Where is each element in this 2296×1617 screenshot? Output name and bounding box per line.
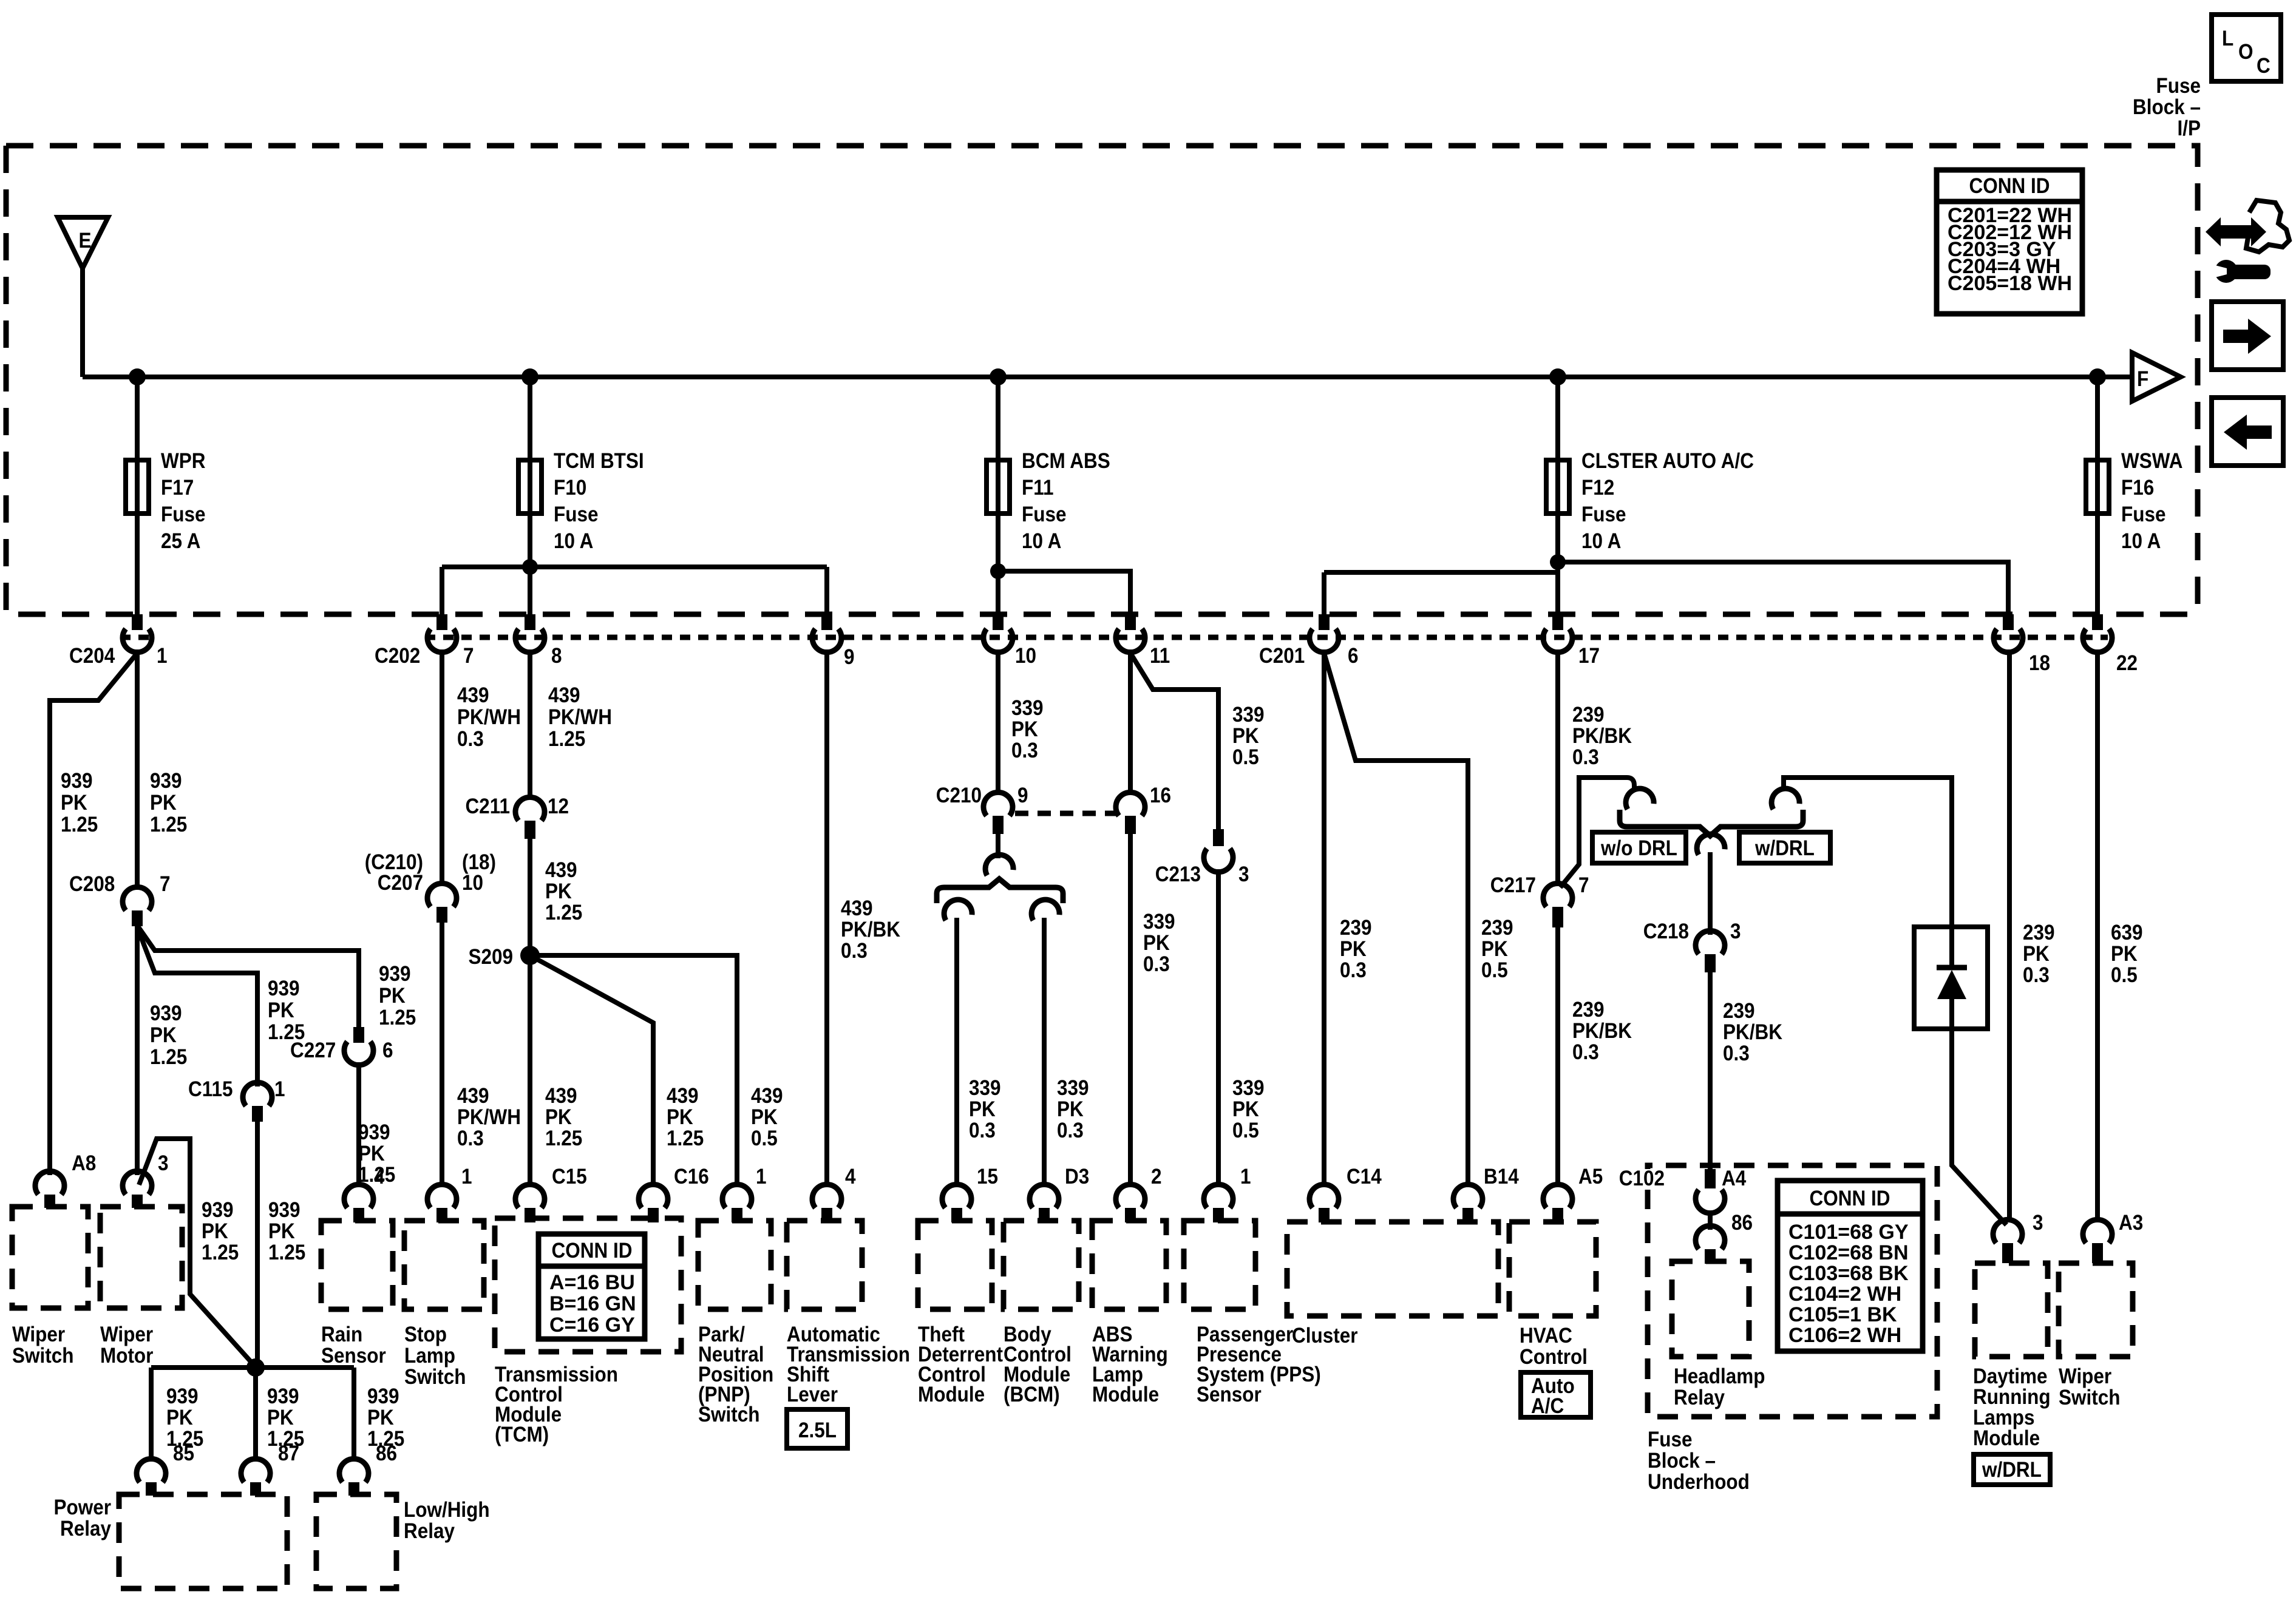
wire S209 to C16 <box>530 955 653 1187</box>
label stop lamp switch <box>404 1323 466 1389</box>
svg-text:F16: F16 <box>2121 476 2154 500</box>
TCM box <box>495 1218 681 1352</box>
connector C207 <box>365 851 496 923</box>
svg-text:(TCM): (TCM) <box>495 1423 549 1447</box>
svg-text:10: 10 <box>462 872 483 895</box>
stop lamp switch box <box>404 1221 484 1309</box>
svg-text:439: 439 <box>841 897 873 921</box>
svg-text:B=16 GN: B=16 GN <box>549 1292 636 1315</box>
wire S209 to PNP pin 1 <box>530 955 737 1187</box>
svg-text:PK: PK <box>166 1406 193 1430</box>
right arrow box <box>2212 302 2283 370</box>
svg-text:1.25: 1.25 <box>150 1046 187 1070</box>
svg-text:18: 18 <box>2029 652 2050 676</box>
svg-text:Module: Module <box>1973 1427 2040 1451</box>
wire label 239 PK/BK 0.3 (A5) <box>1572 998 1632 1065</box>
shift lever box <box>787 1221 862 1309</box>
connector C208 pin 7 <box>69 873 171 926</box>
cluster pin B14 <box>1453 1165 1519 1222</box>
connector C211 pin 12 <box>465 795 569 839</box>
svg-text:0.3: 0.3 <box>1723 1042 1750 1066</box>
svg-text:1.25: 1.25 <box>545 901 582 925</box>
svg-text:439: 439 <box>548 684 580 708</box>
wire C211 to C15 through S209 <box>528 839 532 1187</box>
svg-text:339: 339 <box>1232 703 1265 727</box>
cluster pin C14 <box>1309 1165 1382 1222</box>
connector pin 10 <box>983 614 1036 668</box>
svg-text:2: 2 <box>1151 1165 1162 1189</box>
wire C210-9 to splice <box>996 834 1000 858</box>
wire w/DRL branch to diode <box>1784 778 1952 927</box>
svg-text:A3: A3 <box>2119 1212 2143 1235</box>
svg-text:939: 939 <box>150 1002 182 1026</box>
fuse F12 CLSTER AUTO A/C 10A <box>1546 450 1754 554</box>
connector C202 pin 9 <box>812 614 855 669</box>
wire to relay pin 86 <box>352 1368 356 1462</box>
svg-text:A=16 BU: A=16 BU <box>549 1271 635 1294</box>
svg-text:0.3: 0.3 <box>1057 1119 1084 1143</box>
svg-text:A4: A4 <box>1722 1167 1747 1191</box>
connector C210 pin 9 <box>936 784 1028 834</box>
connector C218 pin 3 <box>1643 920 1741 972</box>
svg-text:10 A: 10 A <box>554 530 593 554</box>
connector C204 pin 1 <box>69 614 168 668</box>
wire C202-7 down to C207 <box>440 649 444 885</box>
connector row dotted line C204 <box>120 635 157 640</box>
wire label 639 PK 0.5 (pin22) <box>2111 921 2143 988</box>
label fuse block underhood <box>1648 1428 1750 1494</box>
power relay box <box>119 1494 287 1588</box>
svg-text:Low/High: Low/High <box>404 1499 490 1522</box>
brace splice DRL <box>1620 810 1803 836</box>
svg-text:A5: A5 <box>1578 1165 1603 1189</box>
CONN ID table top <box>1937 170 2082 314</box>
wire fuse F10 to splice row <box>528 514 532 567</box>
svg-text:939: 939 <box>379 963 411 986</box>
svg-text:Wiper: Wiper <box>100 1323 153 1347</box>
wire to BCM pin D3 <box>1042 918 1047 1187</box>
svg-text:PK/BK: PK/BK <box>1572 1020 1632 1043</box>
svg-text:1.25: 1.25 <box>202 1241 239 1265</box>
svg-text:D3: D3 <box>1065 1165 1089 1189</box>
svg-text:Fuse: Fuse <box>1648 1428 1692 1452</box>
w/DRL splice end arc <box>1769 786 1800 810</box>
connector F triangle <box>2132 353 2181 401</box>
svg-text:C=16 GY: C=16 GY <box>549 1314 635 1337</box>
svg-text:2.5L: 2.5L <box>798 1419 837 1443</box>
wire C204-1 down to C208 <box>135 649 140 890</box>
svg-text:1.25: 1.25 <box>545 1127 582 1151</box>
svg-text:F11: F11 <box>1022 476 1054 500</box>
svg-text:1.25: 1.25 <box>150 813 187 837</box>
svg-text:439: 439 <box>545 1085 577 1108</box>
PPS box <box>1184 1221 1255 1309</box>
CONN ID table (underhood) <box>1778 1181 1923 1351</box>
wire pin3 to relay junction <box>139 1139 256 1367</box>
svg-text:C103=68 BK: C103=68 BK <box>1788 1262 1909 1285</box>
TCM pin C15 <box>515 1165 587 1222</box>
label headlamp relay <box>1674 1365 1765 1410</box>
label passenger presence system sensor <box>1197 1323 1321 1407</box>
svg-text:3: 3 <box>1238 863 1249 887</box>
connector pin 11 <box>1116 614 1170 668</box>
svg-text:PK: PK <box>367 1406 394 1430</box>
daytime running lamps module box <box>1975 1263 2048 1357</box>
wire C201-6 to cluster B14 <box>1324 653 1468 1187</box>
wire label 239 PK 0.3 (pin18) <box>2023 921 2055 988</box>
svg-text:0.5: 0.5 <box>1481 959 1508 983</box>
wire diode to DRL pin 3 <box>1952 1029 2006 1225</box>
fuse F17 WPR 25A <box>126 450 205 554</box>
cluster box <box>1287 1222 1498 1316</box>
wire C217 to w/o DRL splice <box>1560 778 1634 887</box>
svg-text:239: 239 <box>1481 917 1513 940</box>
brace splice <box>937 879 1063 903</box>
main bus wire <box>83 375 2132 379</box>
svg-text:Block –: Block – <box>2133 96 2201 120</box>
svg-text:Relay: Relay <box>60 1517 111 1541</box>
svg-text:9: 9 <box>844 646 855 670</box>
svg-text:339: 339 <box>1143 910 1175 934</box>
shift lever pin 4 <box>812 1165 856 1222</box>
wire C217 to HVAC A5 <box>1555 927 1560 1187</box>
svg-text:939: 939 <box>202 1199 234 1222</box>
wire bus to fuse F11 <box>996 377 1000 460</box>
TCM pin C16 <box>639 1165 709 1222</box>
svg-text:CONN ID: CONN ID <box>552 1239 633 1263</box>
svg-text:939: 939 <box>268 977 300 1001</box>
svg-text:939: 939 <box>166 1385 199 1409</box>
svg-text:Block –: Block – <box>1648 1449 1716 1473</box>
theft module pin 15 <box>942 1165 998 1222</box>
relay junction <box>246 1358 265 1377</box>
HVAC box <box>1509 1222 1596 1316</box>
theft deterrent box <box>918 1221 992 1309</box>
splice end arc left <box>942 897 973 921</box>
svg-text:239: 239 <box>2023 921 2055 945</box>
svg-text:1.25: 1.25 <box>268 1241 305 1265</box>
svg-text:C101=68 GY: C101=68 GY <box>1788 1221 1909 1244</box>
splice arc to C218 <box>1694 832 1725 855</box>
svg-text:PK: PK <box>1481 938 1508 961</box>
svg-text:PK: PK <box>2023 943 2050 966</box>
svg-text:Cluster: Cluster <box>1292 1324 1358 1348</box>
wire label 939 PK 1.25 (A8) <box>61 770 98 837</box>
label body control module <box>1004 1323 1072 1407</box>
wire C218 to C102 <box>1708 972 1713 1173</box>
svg-text:239: 239 <box>1340 917 1372 940</box>
svg-text:0.3: 0.3 <box>969 1119 996 1143</box>
headlamp relay box <box>1672 1261 1749 1357</box>
wire pin22 down to wiper switch A3 <box>2095 649 2100 1222</box>
wire fuse F17 to connector C204 <box>135 514 140 615</box>
hand icon <box>2242 200 2289 252</box>
svg-text:25 A: 25 A <box>161 530 200 554</box>
svg-text:439: 439 <box>667 1085 699 1108</box>
wire label 939 PK 1.25 (C208) <box>150 770 187 837</box>
double arrow icon <box>2206 217 2266 246</box>
svg-text:Lamp: Lamp <box>404 1344 455 1368</box>
stop lamp switch pin 1 <box>427 1165 472 1222</box>
svg-text:PK: PK <box>358 1142 385 1166</box>
wrench icon <box>2213 260 2271 283</box>
svg-text:PK: PK <box>1011 718 1038 742</box>
wire to theft module pin 15 <box>954 918 959 1187</box>
svg-text:A8: A8 <box>72 1152 96 1176</box>
svg-text:9: 9 <box>1017 784 1028 808</box>
svg-text:WSWA: WSWA <box>2121 450 2182 473</box>
connector C202 pin 7 <box>375 614 474 668</box>
svg-text:Underhood: Underhood <box>1648 1471 1750 1494</box>
label wiper switch <box>12 1323 73 1368</box>
svg-text:CONN ID: CONN ID <box>1969 175 2050 198</box>
svg-text:Relay: Relay <box>1674 1386 1725 1410</box>
svg-text:85: 85 <box>173 1442 194 1466</box>
headlamp relay pin 86 <box>1696 1212 1753 1264</box>
PPS pin 1 <box>1204 1165 1251 1222</box>
svg-text:PK: PK <box>545 1106 572 1130</box>
svg-text:CONN ID: CONN ID <box>1810 1187 1890 1211</box>
connector pin 18 <box>1994 614 2050 675</box>
wire label 339 PK 0.5 (C213 above) <box>1232 703 1265 770</box>
svg-text:0.3: 0.3 <box>457 1127 484 1151</box>
svg-text:F: F <box>2137 368 2148 392</box>
connector C201 pin 17 <box>1543 614 1600 668</box>
svg-text:C227: C227 <box>290 1039 336 1063</box>
label Fuse Block - I/P <box>2133 75 2201 141</box>
svg-text:C105=1 BK: C105=1 BK <box>1788 1303 1897 1326</box>
svg-text:Switch: Switch <box>2059 1386 2120 1410</box>
svg-text:939: 939 <box>61 770 93 793</box>
label daytime running lamps module <box>1973 1365 2051 1451</box>
wire label 439 PK 1.25 (C15) <box>545 1085 582 1151</box>
w/o DRL splice end arc <box>1623 786 1654 810</box>
svg-text:7: 7 <box>1578 874 1589 898</box>
svg-text:15: 15 <box>977 1165 998 1189</box>
svg-text:Power: Power <box>54 1496 112 1520</box>
svg-text:C211: C211 <box>465 795 510 819</box>
wire C208 to wiper motor pin 3 <box>135 926 140 1175</box>
wire label 239 PK/BK 0.3 (pin17) <box>1572 703 1632 770</box>
svg-text:PK/BK: PK/BK <box>841 918 900 942</box>
svg-text:Fuse: Fuse <box>161 503 205 527</box>
svg-text:PK: PK <box>1232 725 1259 748</box>
svg-text:439: 439 <box>545 859 577 883</box>
svg-text:Stop: Stop <box>404 1323 447 1347</box>
ground connector E triangle <box>58 217 108 268</box>
CONN ID table (TCM) <box>538 1234 645 1339</box>
svg-text:PK: PK <box>150 792 177 815</box>
connector C227 pin 6 <box>290 1027 393 1065</box>
DRL module pin 3 <box>1993 1212 2043 1263</box>
wire fuse F16 to pin 22 <box>2095 514 2100 615</box>
svg-text:Switch: Switch <box>698 1403 759 1427</box>
wire C202-9 down to shift lever pin 4 <box>824 649 829 1187</box>
wire pin11 down to C210-16 <box>1128 649 1133 794</box>
connector C102 pin A4 <box>1612 1167 1747 1213</box>
relay pin 87 <box>241 1442 299 1496</box>
svg-text:0.3: 0.3 <box>2023 964 2050 988</box>
svg-text:C202: C202 <box>375 645 420 668</box>
svg-text:w/o DRL: w/o DRL <box>1600 837 1677 861</box>
svg-text:3: 3 <box>158 1152 169 1176</box>
svg-text:PK/WH: PK/WH <box>457 706 521 730</box>
wiper switch pin A3 <box>2083 1212 2143 1263</box>
svg-text:PK: PK <box>268 1220 295 1244</box>
svg-text:Fuse: Fuse <box>554 503 598 527</box>
wire label 939 PK 1.25 (86) <box>367 1385 404 1451</box>
svg-text:C204: C204 <box>69 645 115 668</box>
wire C102 to relay pin 86 <box>1708 1212 1713 1230</box>
fuse block I/P dashed boundary <box>6 146 2198 614</box>
fuse F16 WSWA 10A <box>2086 450 2182 554</box>
svg-text:TCM BTSI: TCM BTSI <box>554 450 644 473</box>
svg-text:CLSTER AUTO A/C: CLSTER AUTO A/C <box>1581 450 1754 473</box>
svg-text:PK: PK <box>545 880 572 904</box>
wire to relay pin 87 <box>253 1368 258 1462</box>
left arrow box <box>2212 398 2283 466</box>
svg-text:1: 1 <box>157 645 168 668</box>
wire bus to fuse F16 <box>2095 377 2100 460</box>
svg-text:239: 239 <box>1572 998 1605 1022</box>
w/DRL box (module) <box>1974 1454 2050 1485</box>
connector C210 pin 16 <box>1116 784 1171 834</box>
wire label 339 PK 0.3 (pin10) <box>1011 697 1044 763</box>
svg-text:C210: C210 <box>936 784 982 808</box>
svg-text:S209: S209 <box>468 946 513 969</box>
unspecified splice arc <box>983 852 1014 876</box>
wire label 439 PK/WH 0.3 (pin7) <box>457 684 521 751</box>
wire bus to fuse F17 <box>135 377 140 460</box>
svg-text:PK/WH: PK/WH <box>457 1106 521 1130</box>
ABS pin 2 <box>1116 1165 1162 1222</box>
svg-text:w/DRL: w/DRL <box>1754 837 1815 861</box>
wire splice to C218 <box>1708 852 1713 935</box>
svg-text:PK/BK: PK/BK <box>1723 1021 1782 1045</box>
wire fuse F11 to pins 10,11 <box>996 514 1000 615</box>
svg-text:Switch: Switch <box>12 1344 73 1368</box>
wire C201-6 down to cluster C14 <box>1322 649 1326 1187</box>
svg-text:Motor: Motor <box>100 1344 153 1368</box>
svg-text:w/DRL: w/DRL <box>1982 1459 2042 1482</box>
fuse block underhood dashed box <box>1648 1165 1937 1417</box>
wire bus to fuse F12 <box>1555 377 1560 460</box>
label rain sensor <box>321 1323 386 1368</box>
svg-text:PK/BK: PK/BK <box>1572 725 1632 748</box>
svg-text:439: 439 <box>751 1085 783 1108</box>
w/DRL box <box>1739 832 1830 863</box>
wire label 339 PK 0.3 (pin15) <box>969 1077 1001 1143</box>
connector pin 22 <box>2083 614 2138 675</box>
wire label 439 PK/WH 0.3 (stop lamp) <box>457 1085 521 1151</box>
svg-text:Module: Module <box>1092 1383 1159 1407</box>
fuse F10 TCM BTSI 10A <box>518 450 644 554</box>
svg-text:Fuse: Fuse <box>2121 503 2165 527</box>
wiper switch box right <box>2059 1263 2133 1357</box>
bus junction dots <box>129 368 146 385</box>
connector row dotted line C202/C201 <box>425 635 2108 640</box>
svg-text:Sensor: Sensor <box>321 1344 386 1368</box>
svg-text:12: 12 <box>548 795 569 819</box>
svg-text:C201: C201 <box>1259 645 1305 668</box>
svg-text:1.25: 1.25 <box>548 728 585 751</box>
svg-text:86: 86 <box>1731 1212 1753 1235</box>
svg-text:PK: PK <box>150 1024 177 1048</box>
svg-text:10 A: 10 A <box>2121 530 2161 554</box>
svg-text:3: 3 <box>1730 920 1741 944</box>
w/o DRL box <box>1592 832 1686 863</box>
svg-text:1: 1 <box>1240 1165 1251 1189</box>
svg-text:1.25: 1.25 <box>667 1127 704 1151</box>
svg-text:0.3: 0.3 <box>1572 746 1599 770</box>
wire C208 to C115 <box>138 929 257 1086</box>
svg-text:B14: B14 <box>1484 1165 1519 1189</box>
svg-text:(BCM): (BCM) <box>1004 1383 1060 1407</box>
svg-text:339: 339 <box>1011 697 1044 720</box>
svg-text:939: 939 <box>267 1385 299 1409</box>
splice S209 <box>468 946 540 969</box>
svg-text:F12: F12 <box>1581 476 1614 500</box>
svg-text:639: 639 <box>2111 921 2143 945</box>
wire label 239 PK/BK 0.3 (C218) <box>1723 1000 1782 1066</box>
svg-text:7: 7 <box>463 645 474 668</box>
svg-text:C14: C14 <box>1347 1165 1382 1189</box>
svg-text:339: 339 <box>1232 1077 1265 1100</box>
svg-text:87: 87 <box>278 1442 299 1466</box>
PNP pin 1 <box>722 1165 767 1222</box>
svg-text:8: 8 <box>551 645 562 668</box>
svg-text:1.25: 1.25 <box>61 813 98 837</box>
wire label 239 PK 0.3 (C14) <box>1340 917 1372 983</box>
wire to relay pin 85 <box>149 1368 154 1462</box>
svg-text:439: 439 <box>457 1085 489 1108</box>
svg-text:PK: PK <box>2111 943 2138 966</box>
svg-text:F17: F17 <box>161 476 194 500</box>
svg-text:339: 339 <box>1057 1077 1089 1100</box>
splice end arc right <box>1029 897 1060 921</box>
wire C202-8 down to C211 <box>528 649 532 799</box>
svg-text:239: 239 <box>1723 1000 1755 1023</box>
svg-text:I/P: I/P <box>2177 117 2201 141</box>
wire labels 939 PK 1.25 near pin3 junction <box>202 1199 239 1265</box>
wire C201-17 down to C217 <box>1555 649 1560 886</box>
relay pin 85 <box>137 1442 194 1496</box>
svg-text:C15: C15 <box>552 1165 587 1189</box>
svg-text:86: 86 <box>376 1442 397 1466</box>
svg-text:L: L <box>2222 27 2233 51</box>
svg-text:C207: C207 <box>378 872 423 895</box>
svg-text:1.25: 1.25 <box>379 1006 416 1030</box>
label theft deterrent control module <box>918 1323 1003 1407</box>
svg-text:PK: PK <box>969 1098 996 1122</box>
label wiper motor <box>100 1323 153 1368</box>
wire pin10 down to C210-9 <box>996 649 1000 794</box>
svg-text:0.3: 0.3 <box>1011 739 1038 763</box>
svg-text:1: 1 <box>461 1165 472 1189</box>
connector C202 pin 8 <box>515 614 562 668</box>
diode box <box>1914 927 1988 1029</box>
connector C210 dashed link <box>1015 811 1116 816</box>
wire label 439 PK 1.25 (C16) <box>667 1085 704 1151</box>
svg-text:Headlamp: Headlamp <box>1674 1365 1765 1389</box>
svg-text:4: 4 <box>374 1165 385 1189</box>
svg-text:F10: F10 <box>554 476 586 500</box>
Auto A/C box <box>1521 1372 1591 1418</box>
svg-text:1: 1 <box>756 1165 767 1189</box>
label automatic transmission shift lever <box>787 1323 910 1407</box>
svg-text:10 A: 10 A <box>1581 530 1621 554</box>
diode symbol <box>1937 927 1967 1029</box>
